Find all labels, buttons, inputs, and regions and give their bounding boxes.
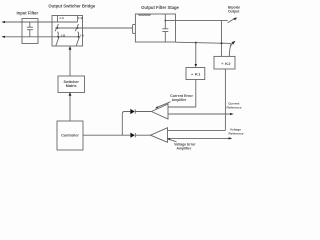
svg-text:1-A: 1-A — [79, 33, 85, 37]
svg-text:1-A: 1-A — [59, 16, 65, 20]
svg-text:Reference: Reference — [227, 105, 242, 109]
svg-text:Amplifier: Amplifier — [172, 98, 187, 102]
svg-text:Output Filter Stage: Output Filter Stage — [141, 5, 179, 10]
svg-text:÷ K1: ÷ K1 — [191, 72, 201, 77]
svg-text:Input Filter: Input Filter — [16, 10, 38, 15]
svg-text:Controller: Controller — [61, 134, 79, 138]
svg-text:Output Switcher Bridge: Output Switcher Bridge — [48, 4, 95, 9]
svg-text:Reference: Reference — [229, 132, 244, 136]
svg-text:1-B: 1-B — [61, 33, 66, 37]
svg-text:Output: Output — [228, 9, 240, 13]
svg-text:÷ K2: ÷ K2 — [221, 61, 231, 66]
svg-text:1-B: 1-B — [78, 16, 83, 20]
svg-text:Matrix: Matrix — [66, 84, 78, 88]
svg-text:Amplifier: Amplifier — [176, 146, 191, 150]
